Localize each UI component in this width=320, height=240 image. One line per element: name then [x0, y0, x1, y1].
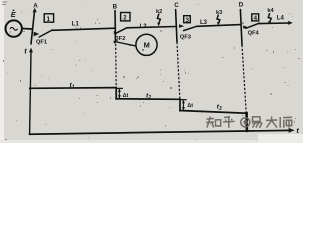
svg-text:A: A [33, 3, 38, 10]
svg-text:L2: L2 [140, 24, 148, 30]
svg-text:L3: L3 [200, 20, 208, 26]
svg-text:QF2: QF2 [114, 36, 125, 42]
svg-text:k3: k3 [216, 10, 222, 16]
svg-text:2: 2 [123, 15, 127, 22]
svg-text:L1: L1 [72, 21, 80, 27]
svg-text:k4: k4 [267, 8, 274, 14]
svg-text:C: C [174, 2, 179, 9]
svg-text:QF3: QF3 [180, 34, 191, 40]
svg-text:D: D [239, 2, 244, 9]
svg-text:k2: k2 [156, 9, 162, 15]
svg-text:B: B [113, 3, 118, 10]
svg-text:1: 1 [47, 16, 51, 23]
svg-text:4: 4 [254, 15, 258, 22]
svg-text:L4: L4 [277, 15, 285, 21]
svg-text:QF4: QF4 [248, 31, 260, 37]
svg-text:M: M [144, 40, 150, 49]
svg-text:Δt: Δt [123, 93, 129, 99]
svg-text:Δt: Δt [187, 103, 193, 109]
svg-text:3: 3 [186, 17, 190, 24]
svg-text:QF1: QF1 [36, 39, 47, 45]
